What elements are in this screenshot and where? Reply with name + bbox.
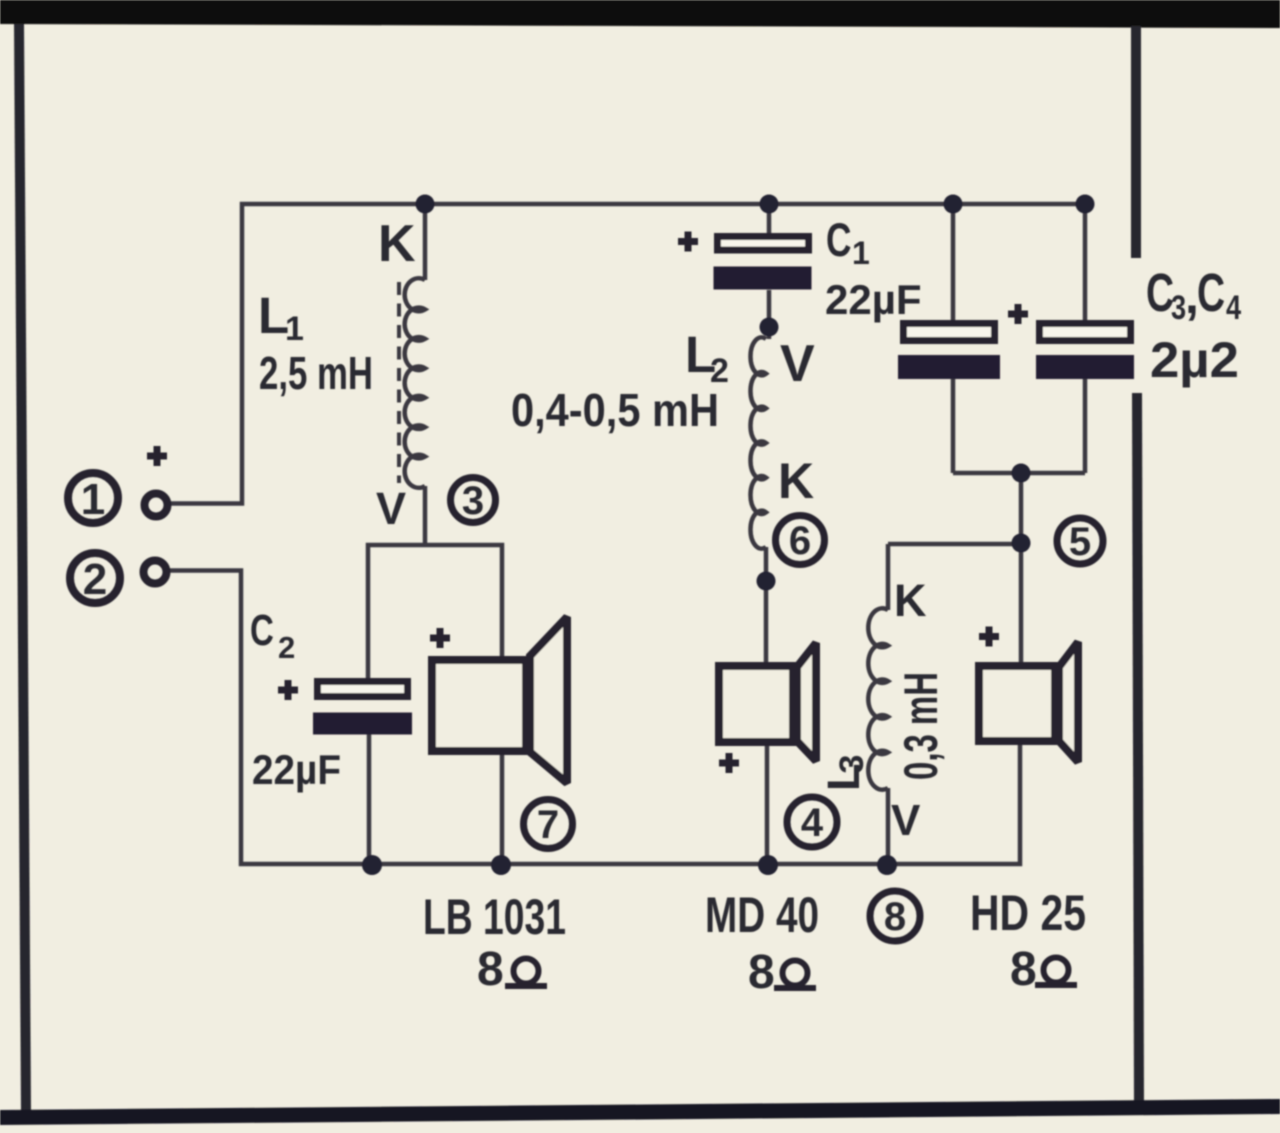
svg-text:V: V [780,335,815,393]
svg-text:3: 3 [462,479,484,523]
svg-text:K: K [378,215,416,273]
svg-text:K: K [894,575,927,626]
svg-text:2,5 mH: 2,5 mH [259,347,373,399]
svg-text:8: 8 [477,943,504,996]
svg-text:HD 25: HD 25 [970,885,1086,941]
svg-text:2: 2 [710,352,729,390]
svg-text:22µF: 22µF [825,276,922,323]
svg-text:6: 6 [789,519,811,563]
svg-text:V: V [376,483,406,534]
svg-text:0,3 mH: 0,3 mH [894,672,947,780]
svg-text:1: 1 [81,475,105,524]
svg-text:2: 2 [278,630,295,665]
svg-text:7: 7 [537,803,559,847]
svg-text:8: 8 [1010,943,1037,996]
svg-text:K: K [778,453,814,509]
svg-text:2: 2 [83,555,107,604]
svg-text:2µ2: 2µ2 [1150,332,1239,388]
svg-text:C: C [1146,262,1174,323]
svg-text:3: 3 [1171,288,1186,327]
svg-text:1: 1 [285,310,304,348]
svg-text:4: 4 [801,801,824,845]
svg-text:V: V [891,796,921,845]
svg-text:5: 5 [1069,520,1091,564]
svg-text:1: 1 [852,235,870,271]
svg-text:LB 1031: LB 1031 [423,889,566,945]
svg-text:C: C [826,213,851,266]
svg-text:22µF: 22µF [252,746,341,793]
svg-text:4: 4 [1226,288,1241,327]
svg-text:0,4-0,5 mH: 0,4-0,5 mH [511,384,719,436]
svg-text:8: 8 [748,946,775,999]
svg-text:C: C [1197,262,1225,323]
svg-text:MD 40: MD 40 [705,887,819,943]
svg-text:C: C [250,607,274,656]
svg-text:8: 8 [884,895,906,939]
